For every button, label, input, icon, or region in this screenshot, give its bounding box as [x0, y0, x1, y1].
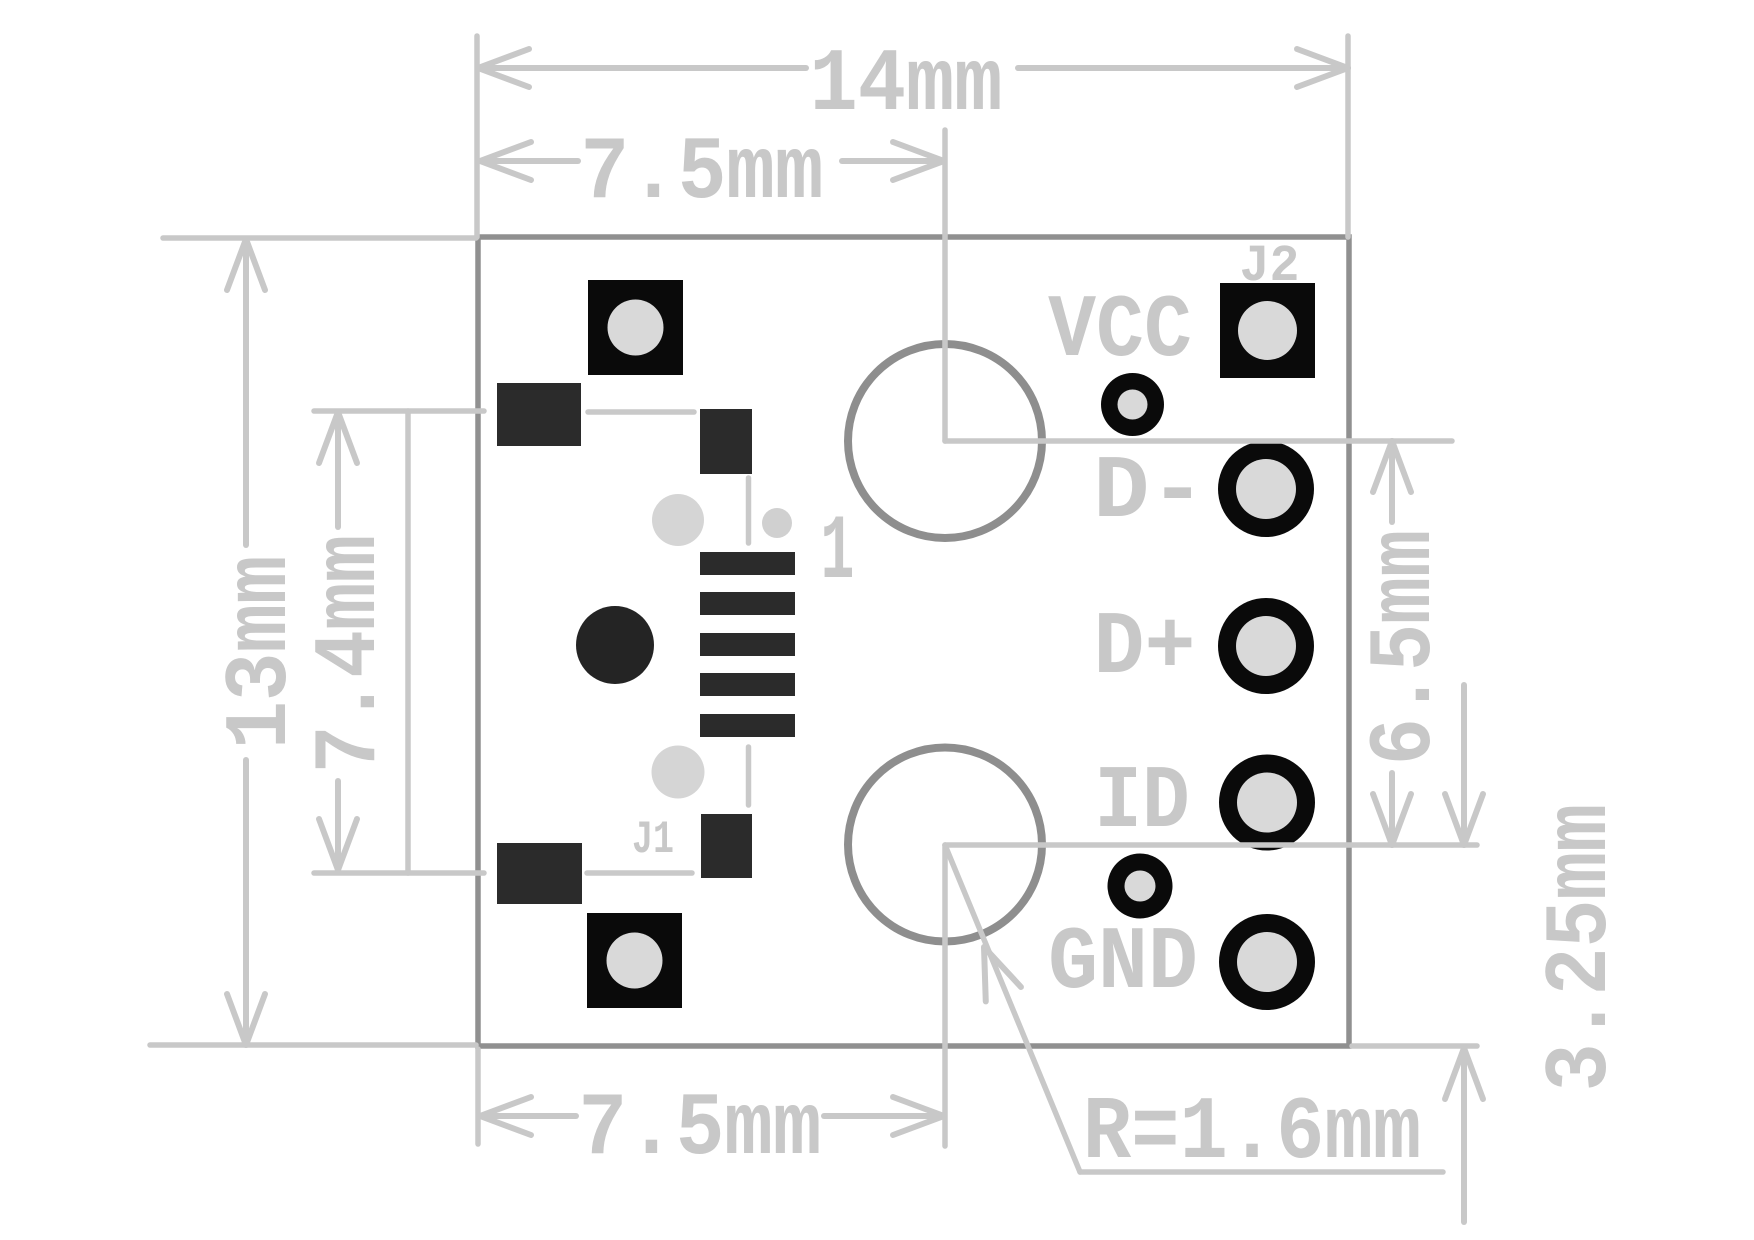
svg-text:J2: J2	[1240, 238, 1300, 296]
svg-text:6.5mm: 6.5mm	[1356, 530, 1457, 765]
svg-text:ID: ID	[1094, 752, 1190, 853]
svg-text:VCC: VCC	[1048, 281, 1192, 382]
svg-text:7.5mm: 7.5mm	[578, 1079, 821, 1181]
svg-text:13mm: 13mm	[210, 556, 312, 750]
svg-text:14mm: 14mm	[810, 34, 1003, 136]
svg-text:J1: J1	[632, 815, 674, 867]
svg-text:7.5mm: 7.5mm	[580, 123, 823, 225]
svg-text:R=1.6mm: R=1.6mm	[1083, 1082, 1421, 1184]
svg-text:7.4mm: 7.4mm	[301, 535, 401, 773]
svg-text:1: 1	[821, 500, 855, 605]
svg-text:D+: D+	[1093, 598, 1195, 700]
svg-text:3.25mm: 3.25mm	[1531, 804, 1632, 1091]
svg-text:D-: D-	[1093, 442, 1206, 543]
svg-text:GND: GND	[1048, 912, 1198, 1013]
